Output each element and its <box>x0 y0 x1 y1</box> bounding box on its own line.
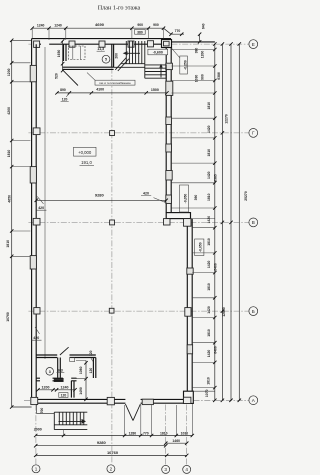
svg-text:12800: 12800 <box>222 307 226 317</box>
svg-text:900: 900 <box>201 74 205 80</box>
svg-text:1420: 1420 <box>207 306 211 314</box>
svg-text:1810: 1810 <box>207 149 211 157</box>
svg-text:1490: 1490 <box>79 387 83 395</box>
svg-text:380: 380 <box>137 30 143 34</box>
svg-text:1200: 1200 <box>7 68 11 76</box>
svg-text:+0,000: +0,000 <box>78 150 92 155</box>
svg-text:-0,250: -0,250 <box>184 60 188 70</box>
svg-text:1500: 1500 <box>151 88 159 92</box>
svg-text:1280: 1280 <box>129 431 137 435</box>
svg-text:120: 120 <box>62 98 68 102</box>
svg-text:900: 900 <box>153 23 159 27</box>
svg-text:390: 390 <box>194 195 198 201</box>
svg-text:6400: 6400 <box>214 263 218 271</box>
svg-text:1810: 1810 <box>206 377 210 385</box>
svg-text:1630: 1630 <box>57 50 61 58</box>
svg-text:1200: 1200 <box>42 385 50 389</box>
svg-text:1810: 1810 <box>207 102 211 110</box>
svg-text:-0,050: -0,050 <box>199 242 203 252</box>
svg-text:9280: 9280 <box>95 193 105 198</box>
svg-text:1420: 1420 <box>207 261 211 269</box>
svg-text:10760: 10760 <box>6 312 10 322</box>
svg-text:200: 200 <box>115 53 119 59</box>
svg-text:газ и теплоснабжение: газ и теплоснабжение <box>99 81 131 85</box>
svg-text:1420: 1420 <box>207 216 211 224</box>
svg-text:1810: 1810 <box>160 431 168 435</box>
svg-text:9280: 9280 <box>97 440 107 445</box>
svg-text:1240: 1240 <box>37 23 45 27</box>
svg-text:6385: 6385 <box>214 174 218 182</box>
svg-text:1240: 1240 <box>54 23 62 27</box>
svg-text:-0,600: -0,600 <box>153 51 163 55</box>
svg-text:-0,050: -0,050 <box>184 194 188 204</box>
svg-text:5: 5 <box>105 58 107 62</box>
svg-text:1200: 1200 <box>201 51 205 59</box>
svg-text:3: 3 <box>49 370 51 374</box>
svg-text:2: 2 <box>110 467 113 472</box>
svg-text:1810: 1810 <box>6 240 10 248</box>
svg-text:4100: 4100 <box>96 88 104 92</box>
svg-text:120: 120 <box>89 350 93 356</box>
svg-text:В: В <box>252 220 255 225</box>
svg-text:1: 1 <box>35 467 38 472</box>
svg-text:План 1-го этажа: План 1-го этажа <box>98 5 141 12</box>
svg-text:700: 700 <box>40 408 44 414</box>
svg-text:6400: 6400 <box>214 346 218 354</box>
svg-text:1030: 1030 <box>195 75 199 83</box>
svg-text:120: 120 <box>61 394 67 398</box>
svg-text:1420: 1420 <box>207 171 211 179</box>
svg-text:640: 640 <box>202 23 206 29</box>
svg-text:1810: 1810 <box>207 283 211 291</box>
svg-text:3: 3 <box>164 467 167 472</box>
svg-text:11,3: 11,3 <box>97 47 104 51</box>
svg-text:2000: 2000 <box>34 427 42 431</box>
svg-text:6,3: 6,3 <box>58 368 63 372</box>
svg-text:890: 890 <box>60 88 66 92</box>
svg-text:1240: 1240 <box>61 385 69 389</box>
svg-text:420: 420 <box>33 336 39 340</box>
svg-text:420: 420 <box>143 191 149 195</box>
svg-text:1420: 1420 <box>207 350 211 358</box>
svg-text:4690: 4690 <box>95 22 105 27</box>
svg-text:4200: 4200 <box>7 107 11 115</box>
svg-text:770: 770 <box>175 29 181 33</box>
svg-text:12270: 12270 <box>225 114 229 124</box>
svg-text:770: 770 <box>143 431 149 435</box>
svg-text:1420: 1420 <box>207 125 211 133</box>
svg-text:191,0: 191,0 <box>81 160 92 165</box>
svg-text:1810: 1810 <box>207 193 211 201</box>
svg-text:Е: Е <box>252 42 255 47</box>
svg-text:6386: 6386 <box>217 72 221 80</box>
svg-text:1810: 1810 <box>207 238 211 246</box>
svg-text:4650: 4650 <box>8 195 12 203</box>
svg-text:Б: Б <box>252 309 255 314</box>
svg-text:1460: 1460 <box>172 439 180 443</box>
svg-text:1070: 1070 <box>205 389 209 397</box>
svg-text:25270: 25270 <box>244 191 248 201</box>
svg-text:1810: 1810 <box>7 150 11 158</box>
svg-text:900: 900 <box>137 23 143 27</box>
svg-text:1080: 1080 <box>79 366 83 374</box>
svg-text:380: 380 <box>195 48 199 54</box>
svg-text:520: 520 <box>55 73 59 79</box>
svg-text:420: 420 <box>38 206 44 210</box>
svg-text:1030: 1030 <box>181 431 189 435</box>
svg-text:4: 4 <box>185 467 188 472</box>
svg-text:120: 120 <box>89 368 93 374</box>
svg-text:10760: 10760 <box>107 450 119 455</box>
svg-text:1810: 1810 <box>207 329 211 337</box>
